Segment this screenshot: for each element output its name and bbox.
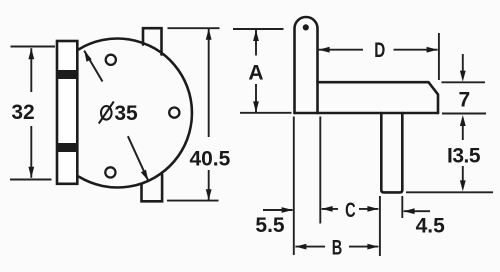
arrow D left [319,47,330,53]
5.5 dimension line [263,209,293,211]
7 bottom extension line [442,113,486,115]
D dimension line left [319,49,363,51]
32 dimension line upper [30,48,32,92]
svg-text:D: D [374,39,385,62]
4.5 dimension line [404,210,430,212]
13.5 lower shaft [462,166,464,181]
arrow leader top [84,51,92,62]
svg-text:A: A [248,61,263,84]
arrow 13.5 down [460,180,466,191]
arrow 40.5 down [206,189,212,200]
arrow 7-13.5 up [460,115,466,126]
40.5 bottom extension line [167,200,219,202]
diameter leader line upper [84,51,102,82]
arrow C left [322,206,333,212]
plate right edge lower extension [319,117,321,224]
stem right edge lower extension [401,196,403,218]
bottom mounting tab [142,175,163,202]
arrow 5.5 right [282,207,293,213]
B dimension line left [295,246,325,248]
svg-text:35: 35 [114,102,138,125]
hole top-left [106,55,116,65]
diameter leader line lower [128,136,148,181]
flange circle (left view body) [79,39,192,188]
C dimension line right [359,208,378,210]
hinge knuckle band lower (filled) [57,143,78,152]
arrow D right [427,47,438,53]
svg-text:32: 32 [11,101,34,124]
A bottom extension line [240,112,292,114]
plate and arm bottom edge [295,112,439,115]
arrow leader bottom [141,170,149,181]
svg-text:40.5: 40.5 [189,148,230,171]
B dimension line right [349,246,378,248]
7 arrow shaft above [462,54,464,71]
plate left edge lower extension [293,117,295,256]
hole bottom-left [105,167,115,177]
7 top extension line [442,81,486,83]
hinge knuckle band upper (filled) [57,70,78,79]
stem (vertical) [381,113,402,192]
arrow 32 up [28,48,34,59]
svg-text:4.5: 4.5 [416,214,446,237]
arrow B left [295,244,306,250]
hinge strip (leaf edge view) [57,41,77,184]
40.5 dimension line upper [208,29,210,137]
pivot pin dot (filled) [303,24,309,30]
arrow A down [253,101,259,112]
arm (horizontal) [318,82,439,113]
40.5 top extension line [168,27,220,29]
C dimension line left [322,208,338,210]
hole right [169,108,179,118]
32 top extension line [11,46,56,48]
arrow B right [367,244,378,250]
arrow 4.5 left [404,208,415,214]
D dimension line right [394,49,438,51]
arrow 40.5 up [206,29,212,40]
svg-text:I3.5: I3.5 [447,145,481,168]
top mounting tab [143,28,162,54]
arrow A up [253,30,259,41]
32 bottom extension line [10,179,52,181]
A dimension line upper [255,30,257,56]
stem left edge lower extension [379,196,381,256]
arrow 7 down [460,71,466,82]
svg-text:B: B [332,236,343,259]
arrow C right [367,206,378,212]
svg-text:C: C [345,199,356,222]
D right extension line [438,33,440,80]
label phi symbol [99,102,114,124]
side view plate with round top [295,17,318,113]
A top extension line [233,28,284,30]
stem bottom extension line [406,191,493,193]
13.5 upper shaft [462,126,464,140]
arrow 32 down [28,167,34,178]
40.5 dimension line lower [208,170,210,200]
A dimension line lower [255,84,257,112]
svg-text:5.5: 5.5 [255,214,285,237]
svg-text:7: 7 [459,89,471,112]
32 dimension line lower [30,126,32,178]
